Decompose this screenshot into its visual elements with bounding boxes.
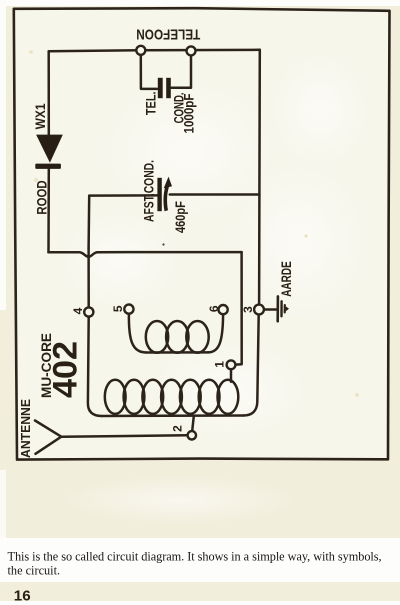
svg-text:460pF: 460pF <box>172 201 188 233</box>
paper specks <box>162 243 164 245</box>
svg-text:TEL.: TEL. <box>142 92 158 116</box>
wire: diode cathode down to bus <box>47 169 50 252</box>
svg-text:the circuit.: the circuit. <box>8 564 61 578</box>
inductor L2 small coil lobe 1 <box>146 321 168 353</box>
wire: bus right corner down to terminal 1 <box>235 252 241 365</box>
border frame <box>14 8 390 459</box>
capacitor C1 1000pF left plate <box>158 78 163 98</box>
svg-text:ANTENNE: ANTENNE <box>19 399 33 458</box>
svg-text:AARDE: AARDE <box>279 261 294 297</box>
diode WX1 triangle <box>36 135 63 163</box>
svg-text:6: 6 <box>207 305 221 312</box>
wire: right leg of 1000pF capacitor <box>172 55 192 87</box>
svg-text:TELEFOON: TELEFOON <box>136 25 200 42</box>
ground symbol AARDE <box>264 308 276 311</box>
diode WX1 cathode bar <box>35 164 61 169</box>
wire: terminal 2 tap from big coil baseline <box>192 416 194 431</box>
wire: antenna lead to terminal 2 <box>61 435 187 436</box>
inner figure paper lighter <box>15 9 389 459</box>
svg-text:2: 2 <box>171 425 185 432</box>
variable capacitor C2 arrowhead <box>164 177 172 189</box>
terminal 1 <box>227 360 236 369</box>
inductor L2 small coil lobe 3 <box>186 321 208 353</box>
wire: small coil right end up to terminal 6 <box>208 314 223 352</box>
wire: left drop to diode <box>47 51 50 135</box>
terminal circle left telefoon <box>136 46 145 55</box>
capacitor C1 1000pF right plate <box>166 78 171 98</box>
svg-text:5: 5 <box>111 305 125 312</box>
wire: below terminal 3 down and curve into big coil right end <box>244 314 259 415</box>
terminal circle right telefoon <box>187 46 196 55</box>
svg-text:402: 402 <box>46 341 84 398</box>
wire: top telephone rail <box>49 50 260 51</box>
svg-text:16: 16 <box>14 588 31 605</box>
wire: small coil baseline <box>146 351 208 354</box>
terminal 2 <box>188 431 196 439</box>
svg-text:1000pF: 1000pF <box>181 93 197 133</box>
wire: big coil baseline <box>102 414 244 417</box>
svg-text:This is the so called circuit: This is the so called circuit diagram. I… <box>8 550 382 564</box>
scan white edges <box>0 0 400 6</box>
inductor L1 big coil lobe 3 <box>142 380 163 414</box>
terminal 3 <box>254 305 264 315</box>
svg-text:3: 3 <box>241 306 255 313</box>
inductor L2 small coil lobe 2 <box>166 321 188 353</box>
wire: tuning-cap top rail right segment <box>170 193 260 196</box>
wire: terminal 1 tap down into big coil <box>230 369 233 382</box>
wire: tuning-cap top rail left segment <box>89 194 157 197</box>
svg-text:ROOD: ROOD <box>34 180 50 214</box>
inductor L1 big coil lobe 7 <box>218 380 239 414</box>
variable capacitor C2 fixed plate <box>157 178 161 211</box>
variable capacitor C2 moving plate arc <box>163 183 169 212</box>
inductor L1 big coil lobe 6 <box>199 380 220 414</box>
inductor L1 big coil lobe 5 <box>180 380 201 414</box>
wire: terminal 4 down into big coil left end <box>88 317 102 416</box>
antenna symbol <box>35 421 61 454</box>
wire: terminal 5 down into small coil left end <box>129 314 146 353</box>
svg-text:1: 1 <box>212 361 226 368</box>
wire: left leg of 1000pF capacitor <box>141 55 157 89</box>
wire: box left side down to bus <box>87 196 90 248</box>
terminal 4 <box>84 307 93 316</box>
ground symbol arrow tick <box>286 306 289 311</box>
svg-text:4: 4 <box>71 307 85 314</box>
mottled light patches <box>100 80 280 220</box>
terminal 5 <box>124 305 133 314</box>
inductor L1 big coil lobe 1 <box>105 380 126 414</box>
svg-text:WX1: WX1 <box>33 103 48 129</box>
inductor L1 big coil lobe 4 <box>161 380 182 414</box>
inductor L1 big coil lobe 2 <box>124 380 145 414</box>
wire: right rail telefoon corner down to tuning wire <box>258 50 261 195</box>
caption white strip <box>0 538 400 582</box>
node: junction above terminal 4 <box>87 248 90 307</box>
wire: horizontal bus with hop at junction <box>49 252 242 257</box>
svg-text:AFST.COND.: AFST.COND. <box>142 160 157 222</box>
terminal 6 <box>219 305 228 314</box>
wire: right rail continues down to terminal 3 <box>258 195 261 305</box>
